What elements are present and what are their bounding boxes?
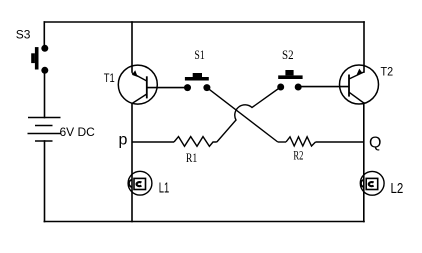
wire P to R1	[132, 141, 174, 143]
battery plate short 1	[35, 125, 53, 127]
T1 collector diagonal	[132, 94, 147, 104]
transistor T2	[340, 65, 379, 104]
svg-text:L1: L1	[159, 180, 170, 197]
L1 socket arc	[129, 180, 132, 187]
L2 filament C	[369, 182, 374, 186]
wire S1 to R2 (crossing diagonal)	[207, 88, 278, 142]
lamp L2	[360, 171, 384, 195]
wire bottom rail	[44, 221, 364, 223]
wire T1 collector down through P and L1 to bottom rail	[131, 104, 133, 222]
wire right rail T2 emitter	[363, 22, 365, 72]
svg-text:T1: T1	[104, 71, 115, 85]
S2 right contact dot	[295, 84, 302, 91]
T2 base bar	[348, 75, 350, 97]
svg-text:L2: L2	[391, 180, 404, 197]
S2 cap	[285, 70, 293, 75]
S3 bottom contact dot	[41, 67, 48, 74]
S3 top contact dot	[41, 45, 48, 52]
wire T1 emitter to top rail	[131, 22, 133, 72]
L2 bulb circle	[360, 171, 384, 195]
wire top rail	[44, 21, 364, 23]
L1 bulb circle	[128, 171, 152, 195]
wire R1 to S2 with crossover hop	[217, 87, 281, 142]
wire battery to bottom rail	[44, 141, 46, 222]
battery plate short 2	[35, 140, 53, 142]
L1 filament C	[137, 182, 142, 186]
wire left rail upper (to S3)	[43, 22, 45, 46]
T1 emitter arrow (PNP)	[132, 70, 138, 77]
S1 bar	[185, 77, 209, 81]
battery plate long 1	[28, 117, 61, 119]
S3 plunger cap	[31, 53, 35, 63]
svg-text:6V DC: 6V DC	[60, 125, 96, 139]
svg-text:R1: R1	[186, 150, 197, 165]
pushbutton S1	[184, 73, 210, 91]
svg-text:R2: R2	[293, 148, 303, 163]
T1 base bar	[146, 76, 148, 98]
svg-text:S1: S1	[194, 47, 204, 62]
svg-text:S3: S3	[16, 28, 31, 42]
switch S3	[31, 45, 48, 74]
pushbutton S2	[277, 70, 302, 91]
lamp L1	[128, 171, 152, 195]
wire into R2	[278, 141, 286, 143]
T2 emitter diagonal	[349, 72, 364, 79]
transistor T1	[118, 65, 157, 104]
wire S3 to battery	[44, 71, 46, 118]
S2 left contact dot	[277, 84, 284, 91]
T1 body circle	[118, 65, 157, 104]
T1 emitter diagonal	[132, 73, 147, 81]
wire T2 collector down through Q and L2 to bottom rail	[363, 103, 365, 222]
S1 cap	[193, 73, 202, 77]
S3 plunger bar	[35, 47, 39, 69]
battery B1 6V	[28, 118, 62, 142]
S1 left contact dot	[184, 84, 191, 91]
L2 holder square	[366, 178, 378, 189]
svg-text:p: p	[119, 132, 128, 149]
wire R2 to Q	[316, 141, 364, 143]
svg-text:S2: S2	[282, 47, 294, 62]
S1 right contact dot	[203, 84, 210, 91]
wire S2 to T2 base	[298, 86, 349, 88]
resistor R1	[174, 137, 217, 147]
T2 collector diagonal	[349, 92, 364, 103]
S2 bar	[278, 75, 302, 79]
L1 holder square	[134, 178, 146, 189]
T2 emitter arrow (PNP)	[357, 69, 363, 75]
svg-text:T2: T2	[381, 65, 394, 79]
L2 socket arc	[361, 180, 364, 187]
T2 body circle	[340, 65, 379, 104]
resistor R2	[286, 137, 316, 146]
wire T1 base to S1	[147, 87, 185, 89]
svg-text:Q: Q	[369, 134, 381, 151]
battery plate long 2	[28, 133, 62, 135]
